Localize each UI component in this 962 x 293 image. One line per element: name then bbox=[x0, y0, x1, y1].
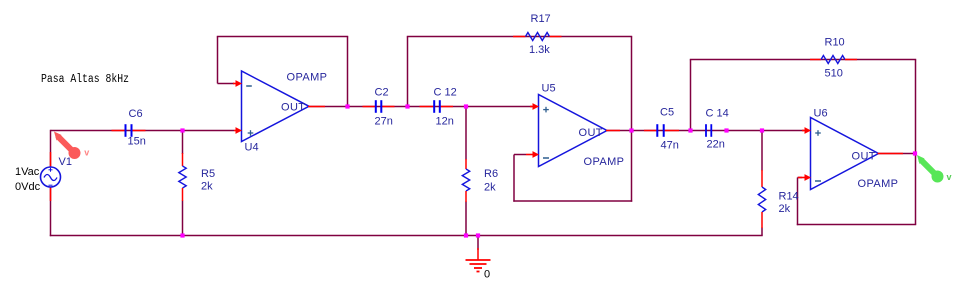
svg-text:OPAMP: OPAMP bbox=[287, 72, 328, 84]
op-amp U6 bbox=[811, 118, 879, 190]
wire U4 feedback left leg bbox=[217, 37, 219, 84]
svg-text:R5: R5 bbox=[201, 168, 215, 180]
wire U4 output row to U5 bbox=[309, 106, 532, 108]
svg-text:C2: C2 bbox=[375, 87, 389, 99]
ground symbol 0 bbox=[466, 248, 491, 272]
U4 plus input pin arrow bbox=[234, 127, 242, 134]
red voltage probe marker bbox=[54, 132, 81, 160]
node C2/R17 junction bbox=[405, 104, 409, 108]
wire U6 output to node bbox=[879, 153, 916, 155]
wire R10 right leg and U6 feedback right leg bbox=[915, 60, 917, 225]
svg-text:OPAMP: OPAMP bbox=[858, 178, 899, 190]
capacitor C14 bbox=[706, 124, 711, 137]
svg-text:1Vac: 1Vac bbox=[15, 166, 40, 178]
node small C14 pin junction bbox=[724, 128, 728, 132]
svg-text:22n: 22n bbox=[707, 139, 725, 151]
wire R17 top bbox=[407, 36, 632, 38]
svg-text:V1: V1 bbox=[59, 156, 72, 168]
svg-text:R6: R6 bbox=[484, 168, 498, 180]
svg-text:OUT: OUT bbox=[579, 127, 603, 139]
svg-text:12n: 12n bbox=[436, 116, 454, 128]
node U4 output junction bbox=[345, 104, 349, 108]
U4 output pin bbox=[308, 106, 325, 108]
svg-text:2k: 2k bbox=[484, 182, 496, 194]
resistor R14 bbox=[758, 170, 765, 228]
svg-text:15n: 15n bbox=[128, 136, 146, 148]
wire U4 minus input stub bbox=[218, 83, 235, 85]
green voltage probe marker bbox=[917, 155, 944, 183]
wire R10 top bbox=[690, 59, 916, 61]
svg-text:0: 0 bbox=[484, 269, 490, 281]
node ground stem junction bbox=[476, 233, 480, 237]
svg-text:0Vdc: 0Vdc bbox=[15, 181, 41, 193]
svg-text:510: 510 bbox=[825, 68, 843, 80]
svg-text:2k: 2k bbox=[201, 181, 213, 193]
svg-text:27n: 27n bbox=[375, 116, 393, 128]
svg-text:OPAMP: OPAMP bbox=[584, 156, 625, 168]
node U6 output junction bbox=[913, 151, 917, 155]
svg-text:U4: U4 bbox=[245, 142, 259, 154]
node R6 bottom rail junction bbox=[464, 233, 468, 237]
svg-text:U6: U6 bbox=[814, 108, 828, 120]
U4 minus input pin arrow bbox=[233, 80, 242, 87]
resistor R17 bbox=[513, 33, 562, 41]
capacitor C12 bbox=[420, 100, 454, 113]
svg-text:Pasa Altas 8kHz: Pasa Altas 8kHz bbox=[41, 73, 129, 86]
wire R10 left leg bbox=[690, 60, 692, 131]
U5 output pin bbox=[606, 130, 620, 132]
svg-text:U5: U5 bbox=[542, 83, 556, 95]
node R14 branch junction bbox=[760, 128, 764, 132]
wire R14 branch bbox=[761, 131, 763, 171]
voltage source V1 bbox=[41, 152, 61, 201]
wire V1 top leg bbox=[50, 130, 52, 167]
capacitor C5 bbox=[644, 124, 679, 137]
svg-text:R17: R17 bbox=[531, 13, 551, 25]
svg-text:v: v bbox=[947, 172, 952, 182]
node U5 output junction bbox=[629, 128, 633, 132]
svg-text:C 14: C 14 bbox=[706, 108, 729, 120]
U6 minus input pin arrow bbox=[798, 174, 811, 181]
wire R6 branch bbox=[465, 107, 467, 160]
svg-text:R14: R14 bbox=[779, 191, 799, 203]
wire ground stem bbox=[477, 236, 479, 251]
svg-text:R10: R10 bbox=[825, 37, 845, 49]
resistor R10 bbox=[810, 56, 857, 64]
wire bottom ground rail bbox=[50, 235, 763, 237]
resistor R6 bbox=[462, 159, 469, 202]
svg-text:C6: C6 bbox=[129, 108, 143, 120]
U6 plus input pin arrow bbox=[802, 127, 811, 134]
node C12/R6 junction bbox=[464, 104, 468, 108]
node R5 bottom rail junction bbox=[180, 233, 184, 237]
svg-text:1.3k: 1.3k bbox=[529, 44, 550, 56]
wire U5 output row to U6 bbox=[607, 130, 804, 132]
op-amp U4 bbox=[242, 71, 310, 142]
svg-text:47n: 47n bbox=[661, 140, 679, 152]
op-amp U5 bbox=[539, 95, 608, 167]
wire U5 feedback bottom bbox=[513, 200, 632, 202]
svg-text:C5: C5 bbox=[660, 107, 674, 119]
wire V1 bottom leg bbox=[50, 187, 52, 236]
U5 plus input pin arrow bbox=[530, 103, 539, 110]
resistor R5 bbox=[179, 153, 186, 201]
wire U5 minus input stub bbox=[514, 154, 526, 156]
U6 output pin bbox=[878, 153, 904, 155]
svg-text:OUT: OUT bbox=[281, 102, 305, 114]
wire U5 feedback left leg bbox=[513, 155, 515, 202]
wire top-left rail V1 to U4 bbox=[51, 130, 235, 132]
node C5/C14/R10 junction bbox=[688, 128, 692, 132]
svg-text:2k: 2k bbox=[779, 203, 791, 215]
U5 minus input pin arrow bbox=[526, 151, 539, 158]
wire R17 right leg and U5 feedback right leg bbox=[631, 37, 633, 202]
wire U4 feedback top bbox=[217, 36, 348, 38]
svg-text:OUT: OUT bbox=[852, 151, 876, 163]
wire U6 feedback left leg bbox=[797, 178, 799, 226]
node C6/R5 junction bbox=[180, 128, 184, 132]
capacitor C6 bbox=[112, 124, 146, 137]
wire U6 minus input stub bbox=[798, 177, 803, 179]
wire R17 left leg bbox=[407, 37, 409, 107]
svg-text:v: v bbox=[84, 147, 89, 157]
capacitor C2 bbox=[363, 100, 395, 113]
svg-text:C 12: C 12 bbox=[434, 87, 457, 99]
wire U4 feedback right leg bbox=[347, 37, 349, 107]
wire U6 feedback bottom bbox=[797, 224, 916, 226]
wire R5 branch bbox=[182, 131, 184, 155]
